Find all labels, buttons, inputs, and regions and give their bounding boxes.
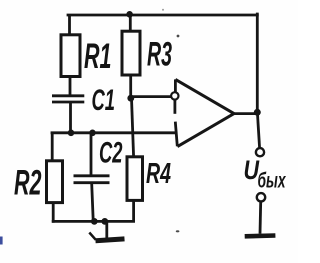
junction dot C2 at node xyxy=(89,130,96,137)
junction dot output node xyxy=(254,109,261,116)
terminal circle (output, bottom) xyxy=(257,193,265,201)
wire top rail xyxy=(68,14,257,17)
svg-text:C2: C2 xyxy=(99,136,123,169)
wire bottom rail xyxy=(53,220,133,223)
wire R3 to R4 vertical xyxy=(132,98,134,157)
junction dot R3/R4/inverting input xyxy=(127,95,134,102)
wire bottom terminal to ground xyxy=(259,202,263,234)
svg-text:R3: R3 xyxy=(147,36,172,74)
wire output to top terminal xyxy=(257,113,259,149)
wire R1 to C1 xyxy=(69,77,72,95)
capacitor C2 xyxy=(74,176,110,183)
svg-text:R1: R1 xyxy=(84,37,112,76)
capacitor C1 xyxy=(52,96,84,102)
wire R2 bottom lead xyxy=(52,203,55,222)
terminal circle (output, top) xyxy=(256,148,264,156)
speck lower middle xyxy=(176,230,180,232)
wire right feedback drop xyxy=(256,14,259,112)
junction dot top of R3 xyxy=(126,11,133,18)
junction dot C1 at node xyxy=(68,130,75,137)
svg-text:R4: R4 xyxy=(146,158,171,190)
resistor R4 xyxy=(127,157,143,201)
ground (output, bottom right) xyxy=(245,233,276,238)
op-amp U1 xyxy=(171,79,234,146)
resistor R2 xyxy=(47,161,63,203)
wire inverting input xyxy=(131,95,171,98)
wire C2 bottom lead xyxy=(92,184,94,221)
wire C1 bottom lead xyxy=(69,103,72,133)
wire R3 top lead xyxy=(129,15,132,32)
ground (main, bottom center) xyxy=(89,222,124,241)
wire R3 bottom lead xyxy=(129,75,132,98)
resistor R1 xyxy=(61,35,80,77)
wire node horizontal (non-inverting input) xyxy=(52,131,175,134)
svg-text:C1: C1 xyxy=(92,84,116,117)
resistor R3 xyxy=(122,31,140,75)
wire C2 top lead xyxy=(90,134,93,175)
wire op-amp output xyxy=(234,112,258,115)
svg-text:бых: бых xyxy=(258,170,287,193)
wire R4 bottom lead xyxy=(132,200,135,220)
svg-text:R2: R2 xyxy=(14,164,42,203)
speck top xyxy=(162,9,164,11)
junction dot ground at bottom rail xyxy=(101,218,108,225)
speck near R3 xyxy=(177,35,180,38)
blue tick scan artifact left edge xyxy=(0,237,3,245)
wire R1 top lead xyxy=(68,16,71,35)
junction dot C2 bottom rail xyxy=(91,218,98,225)
wire R2 top lead xyxy=(51,133,54,161)
